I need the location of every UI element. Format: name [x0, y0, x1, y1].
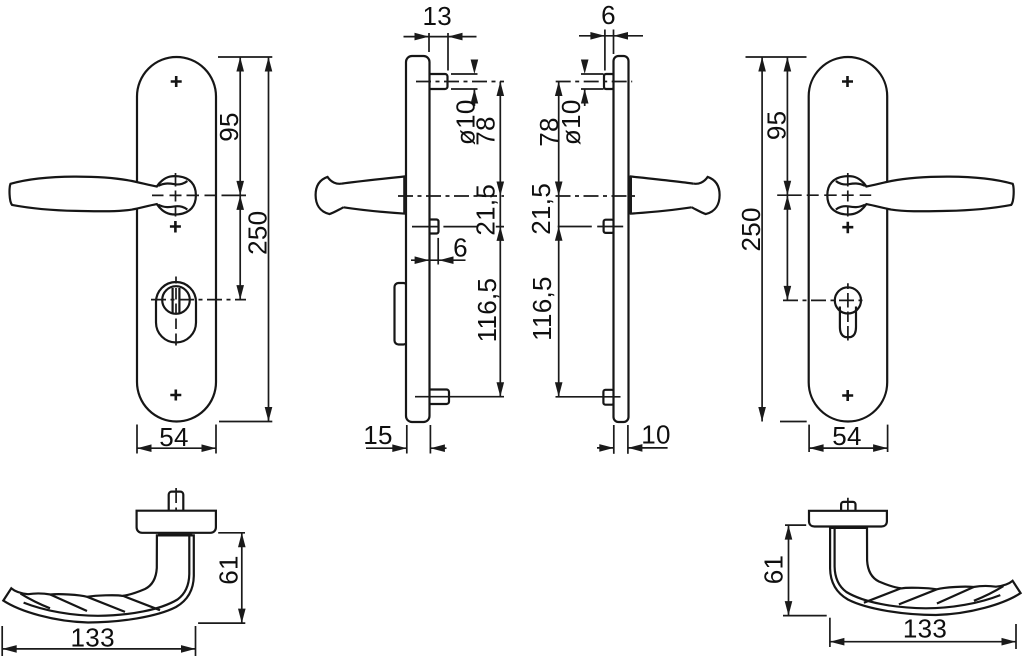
svg-text:250: 250: [242, 211, 272, 255]
bolt centerline: [416, 81, 504, 83]
inner rail line: [24, 536, 190, 616]
handle centerline horizontal: [152, 194, 246, 196]
15 extension lines: [406, 425, 408, 454]
svg-text:95: 95: [214, 112, 244, 142]
facet line 3: [899, 589, 937, 604]
rose disc edge-on: [403, 176, 406, 214]
screw cross top: [842, 76, 853, 87]
extension lines 54: [808, 425, 810, 452]
screw cross bottom: [842, 390, 853, 401]
facet line 4: [864, 588, 901, 602]
spindle stub: [169, 492, 184, 513]
dimension line 6: [411, 259, 466, 261]
screw cross bottom: [170, 390, 181, 401]
spindle centerline: [847, 498, 849, 532]
dimension line 78: [558, 82, 560, 197]
dimension line 13: [404, 36, 477, 38]
133 extension lines: [829, 618, 831, 647]
svg-text:78: 78: [471, 116, 501, 146]
dimension line 250: [268, 57, 270, 422]
cylinder protection bulge: [395, 283, 408, 345]
dia10 arrows: [471, 60, 479, 75]
rose disc edge-on: [629, 176, 632, 214]
facet line 2: [50, 595, 87, 612]
dimension line 95: [239, 57, 241, 195]
svg-text:61: 61: [214, 555, 244, 585]
top fixing bolt: [428, 74, 448, 89]
svg-text:78: 78: [534, 117, 564, 147]
svg-text:116,5: 116,5: [527, 276, 557, 341]
dimension line 54: [137, 447, 216, 449]
lever mirrored: [827, 176, 1013, 214]
lever outline top view mirrored: [830, 528, 1021, 615]
cylinder circle: [162, 286, 190, 314]
extension lines 54: [136, 425, 138, 454]
svg-text:54: 54: [159, 422, 189, 452]
lever mirrored: [629, 176, 720, 214]
dimension segment handle to cylinder: [239, 195, 241, 299]
6 extension line: [437, 238, 439, 265]
lever grip end cap: [692, 177, 720, 214]
dimension line 15: [366, 447, 407, 449]
svg-text:95: 95: [761, 111, 791, 141]
rose pocket line bottom: [158, 205, 187, 210]
lever neck cone top edge: [342, 176, 406, 183]
svg-text:250: 250: [736, 207, 766, 251]
dimension 116,5 bottom arrow: [555, 382, 563, 397]
dimension line 61: [241, 533, 243, 623]
dimension line 6: [579, 35, 643, 37]
rose pocket line bottom: [836, 205, 865, 210]
dimension line 10: [597, 447, 614, 449]
handle centerline vertical: [847, 173, 849, 217]
lever neck cone bottom edge: [344, 207, 406, 213]
rose block: [137, 511, 216, 533]
handle axis centerline: [556, 195, 638, 197]
neck gap band: [832, 527, 866, 530]
133 extension lines: [1, 626, 3, 656]
facet line 1: [21, 594, 51, 609]
dimension line 78: [499, 82, 501, 197]
svg-text:133: 133: [71, 622, 115, 652]
svg-text:133: 133: [903, 614, 947, 644]
facet line 2: [937, 587, 974, 604]
dimension segment handle to cylinder: [786, 195, 788, 300]
10 extension lines: [613, 425, 615, 454]
dia10 extension lines: [451, 73, 478, 75]
svg-text:21,5: 21,5: [470, 184, 500, 236]
bottom fixing bolt short: [603, 390, 614, 405]
extension line bottom: [780, 421, 807, 423]
bottom bolt centerline: [556, 396, 621, 398]
svg-text:21,5: 21,5: [526, 183, 556, 235]
spindle square stud: [428, 220, 439, 234]
extension line top: [746, 56, 807, 58]
inner rail line: [835, 528, 1001, 608]
lever outline with rose bulb: [827, 176, 1013, 214]
handle axis centerline: [398, 195, 504, 197]
13 extension lines: [428, 33, 430, 52]
neck gap band: [158, 533, 192, 536]
rose block: [809, 511, 887, 527]
security rosette oval: [156, 282, 196, 343]
cylinder centerline horizontal: [783, 299, 865, 301]
dimension 21,5 arrows: [499, 196, 501, 397]
bolt centerline: [556, 81, 633, 83]
cylinder centerline vertical: [175, 277, 177, 346]
rose pocket line top: [158, 181, 187, 186]
bottom bolt centerline: [415, 396, 504, 398]
cylinder centerline vertical: [847, 283, 849, 340]
dimension line 95: [786, 57, 788, 195]
handle centerline horizontal: [777, 194, 871, 196]
lever outline top view: [3, 535, 194, 622]
screw cross top: [171, 76, 182, 87]
dimension 21,5 arrows: [558, 196, 560, 397]
svg-text:6: 6: [453, 233, 468, 263]
spindle stub short: [841, 502, 855, 512]
spindle stud centerline: [412, 226, 504, 228]
backplate outline: [809, 57, 888, 422]
61 extension lines: [785, 524, 806, 526]
rose pocket line top: [836, 181, 865, 186]
extension line bottom: [219, 421, 272, 423]
plate side profile: [406, 56, 430, 422]
cylinder circle: [835, 287, 861, 313]
61 extension lines: [218, 532, 245, 534]
dimension 116,5 bottom arrow: [497, 382, 505, 397]
backplate outline: [137, 57, 216, 422]
6 extension lines: [604, 30, 606, 71]
bottom fixing bolt: [428, 390, 449, 405]
spindle square stud: [604, 220, 614, 233]
spindle cross below handle: [170, 221, 181, 233]
spindle stud centerline: [558, 226, 624, 228]
top fixing bolt short: [604, 74, 614, 89]
dimension line 250: [761, 57, 763, 422]
cylinder keyway: [840, 307, 856, 338]
cylinder centerline horizontal: [151, 299, 246, 301]
svg-text:61: 61: [759, 555, 789, 585]
lever neck cone top edge: [630, 176, 694, 183]
lever outline with rose bulb: [10, 176, 196, 214]
dia10 extension lines: [581, 73, 604, 75]
cylinder keyway lines: [173, 288, 180, 313]
svg-text:6: 6: [601, 0, 616, 30]
svg-text:13: 13: [423, 1, 453, 31]
dimension line 61: [788, 525, 790, 616]
dimension line 133: [2, 648, 195, 650]
dimension line 54: [809, 447, 888, 449]
lever neck cone bottom edge: [630, 207, 692, 213]
dimension line 133: [830, 641, 1016, 643]
handle centerline vertical: [175, 173, 177, 217]
svg-text:54: 54: [832, 421, 862, 451]
svg-text:116,5: 116,5: [472, 278, 502, 343]
spindle centerline: [175, 488, 177, 539]
spindle cross below handle: [842, 222, 853, 234]
facet line 4: [123, 596, 160, 610]
lever grip end cap: [316, 177, 344, 214]
dia10 arrows: [581, 60, 589, 75]
svg-text:10: 10: [641, 420, 671, 450]
extension line top: [218, 56, 272, 58]
facet line 1: [974, 586, 1004, 601]
plate side profile: [614, 56, 629, 422]
svg-text:15: 15: [363, 420, 393, 450]
facet line 3: [87, 597, 125, 612]
